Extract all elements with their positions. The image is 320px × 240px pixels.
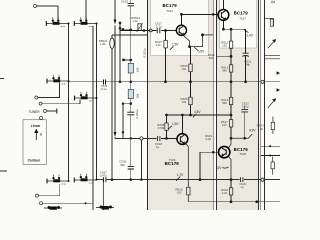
voltage tap 1,5V leader (T628) bbox=[168, 126, 172, 129]
connector pin TUNER bbox=[44, 110, 47, 113]
wire P1 to switch S1 bbox=[37, 6, 59, 21]
Linear/Contour box bbox=[23, 120, 47, 165]
wire P3 bus y103.6 to switch S4 bbox=[42, 100, 80, 104]
svg-text:15k: 15k bbox=[182, 67, 187, 71]
capacitor C622 plates bbox=[241, 109, 248, 112]
wire bus to R624 to bottom bus bbox=[230, 180, 232, 202]
plug bar bbox=[56, 109, 58, 114]
node chain y115 bbox=[230, 114, 232, 116]
svg-text:390: 390 bbox=[222, 101, 227, 105]
svg-text:13k: 13k bbox=[182, 100, 187, 104]
node x120 on bus bbox=[119, 81, 121, 83]
wire TUNER to plug bbox=[47, 110, 57, 112]
node S1-rail bbox=[68, 23, 70, 25]
connector ring on wire y138.4 bbox=[140, 137, 143, 140]
transistor T627 circle bbox=[218, 10, 229, 21]
bottom bus right bbox=[188, 201, 280, 203]
node R607 top bbox=[165, 30, 167, 32]
left edge stub y79 bbox=[0, 78, 4, 80]
svg-text:1μ: 1μ bbox=[156, 145, 160, 149]
capacitor C617 plates bbox=[157, 28, 160, 33]
node base rail bbox=[212, 151, 214, 153]
svg-text:1,2k: 1,2k bbox=[257, 127, 263, 131]
T628 internals bbox=[180, 135, 184, 144]
node S4-rail bbox=[96, 97, 98, 99]
white label box B (around T627) bbox=[219, 0, 256, 48]
stub wire right y146.5 bbox=[261, 145, 280, 147]
svg-text:Ua: Ua bbox=[271, 0, 275, 4]
resistor R614 bbox=[229, 97, 232, 104]
wire y115 horizontal bbox=[167, 114, 232, 116]
signal wire x115 with direction arrows bbox=[114, 0, 116, 138]
T628 emitter wire down bbox=[185, 143, 188, 187]
node m junction dots P8 wire bbox=[85, 202, 87, 204]
resistor R607 bbox=[164, 40, 167, 48]
arrow down top bbox=[114, 20, 117, 25]
stub wire right y155.7 bbox=[261, 155, 280, 157]
chain x190.5: emitter to R605 bbox=[190, 47, 192, 64]
vertical x86 from top bbox=[85, 0, 87, 21]
wire chain R613 bbox=[230, 56, 232, 97]
shaded panel A bbox=[148, 0, 214, 210]
resistor R603 18k (blue) bbox=[128, 63, 133, 73]
svg-text:47k: 47k bbox=[156, 43, 161, 47]
voltage tap 1,5V leader (T621) bbox=[170, 46, 174, 50]
T621 internals bbox=[179, 26, 184, 35]
node x123 top bbox=[122, 103, 124, 105]
svg-text:T628: T628 bbox=[239, 152, 246, 156]
wire y29.3 to C621 bbox=[223, 29, 245, 53]
transistor T621 circle bbox=[176, 25, 186, 35]
resistor R606 bbox=[189, 97, 192, 105]
wire R605 to bus bbox=[190, 72, 192, 98]
node y115 x190.5 bbox=[190, 114, 192, 116]
svg-text:1,5V: 1,5V bbox=[172, 43, 179, 47]
potentiometer arrow lower right bbox=[268, 99, 276, 108]
bottom edge partial switch 2 bbox=[96, 180, 114, 210]
node stub y146.5 bbox=[269, 145, 271, 147]
tap wire y60 bbox=[125, 59, 131, 61]
svg-text:1μ: 1μ bbox=[240, 185, 244, 189]
signal arrowhead y90 bbox=[277, 88, 280, 91]
resistor R604 18k (blue) bbox=[128, 89, 133, 98]
svg-text:0,022μ: 0,022μ bbox=[135, 109, 139, 118]
svg-text:1,5V: 1,5V bbox=[172, 122, 179, 126]
connector pin P3 bbox=[39, 102, 42, 105]
wire chain R611 bbox=[230, 29, 232, 56]
node R607 bus bbox=[165, 81, 167, 83]
node y138.2 bbox=[230, 137, 232, 139]
svg-text:18k: 18k bbox=[136, 93, 140, 98]
wire P2 up to switch S3 bbox=[38, 83, 60, 98]
wire y138.2 right + 4,9V leader bbox=[231, 134, 252, 138]
connector ring bus y81.8 bbox=[261, 80, 264, 83]
node x141.4 on bus bbox=[141, 179, 143, 181]
node chain on bus y179.6 bbox=[130, 179, 132, 181]
node y115 x182.4 bbox=[181, 114, 183, 116]
switch S5 bbox=[47, 175, 69, 184]
svg-text:0,5V: 0,5V bbox=[198, 49, 205, 53]
capacitor C614 0.022u plates bbox=[127, 112, 134, 115]
wire C621 to bus bbox=[245, 56, 247, 82]
wire x202.5 node to rail bbox=[203, 34, 214, 36]
wire y29.3 link bbox=[120, 28, 131, 30]
T627 internals bbox=[221, 10, 225, 19]
wire y103.6 segment bbox=[123, 103, 131, 105]
rail between panels (left) bbox=[212, 0, 214, 210]
node y30.5 x144 bbox=[143, 30, 145, 32]
shaded panel B bbox=[216, 0, 258, 210]
svg-text:4,9V: 4,9V bbox=[249, 128, 256, 132]
bottom wire left bbox=[42, 202, 93, 204]
transistor T626 circle bbox=[219, 146, 230, 157]
resistor right lower leads bbox=[272, 157, 274, 175]
connector pin P7 bbox=[36, 194, 39, 197]
resistor R617 bbox=[229, 120, 232, 127]
svg-text:1,4k: 1,4k bbox=[132, 19, 138, 23]
svg-text:T621: T621 bbox=[166, 9, 173, 13]
wire R607 vertical to bus bbox=[165, 31, 167, 82]
connector ring bus y179.6 bbox=[261, 178, 264, 181]
resistor right lower bbox=[271, 162, 274, 169]
svg-text:0,1μ: 0,1μ bbox=[101, 87, 107, 91]
svg-text:100μ: 100μ bbox=[242, 105, 249, 109]
svg-text:130: 130 bbox=[222, 123, 227, 127]
node S6 wire on bus bbox=[112, 179, 114, 181]
svg-text:0,022μ: 0,022μ bbox=[142, 48, 146, 57]
node emitter junction bbox=[189, 46, 191, 48]
vertical wire x123 lower bbox=[122, 104, 124, 139]
switch S4 bbox=[75, 92, 97, 101]
panel A left border rail bbox=[147, 0, 149, 210]
bottom edge partial switch 1 bbox=[44, 206, 62, 209]
background paper bbox=[0, 0, 280, 210]
wire R606 to y115 bbox=[190, 105, 192, 115]
node C622 y138.2 bbox=[244, 137, 246, 139]
trimmer R5623 bbox=[138, 24, 141, 31]
T626 emitter wire down bbox=[228, 156, 231, 179]
capacitor C622 leads bbox=[244, 106, 246, 139]
node chain on bus y81.8 bbox=[130, 81, 132, 83]
node S6-rail bbox=[96, 179, 98, 181]
node bottom bus x256.7 bbox=[256, 201, 258, 203]
svg-text:380: 380 bbox=[222, 69, 227, 73]
bus y=179.6 horizontal bbox=[97, 179, 281, 181]
wire R617 to node y138.2 bbox=[230, 127, 232, 138]
resistor R605 bbox=[189, 64, 192, 72]
svg-text:130: 130 bbox=[222, 44, 227, 48]
node C621 bus bbox=[245, 81, 247, 83]
main chain vertical x130.8 bbox=[130, 0, 132, 180]
left edge stub y171 bbox=[0, 170, 7, 172]
bus y=81.8 horizontal bbox=[69, 81, 281, 83]
resistor right mid bbox=[271, 122, 274, 129]
node S3-rail bbox=[68, 80, 70, 82]
node S2-rail bbox=[96, 23, 98, 25]
svg-text:1,8k: 1,8k bbox=[100, 42, 106, 46]
vertical wire x111 (lamp branch) bbox=[111, 35, 113, 180]
switch S6 bbox=[74, 174, 96, 183]
voltage tap 1,7V leader (T628) bbox=[176, 177, 180, 181]
svg-text:TUNER: TUNER bbox=[29, 110, 41, 114]
node x112 on bus y179.6 bbox=[111, 179, 113, 181]
rail between panels (right) bbox=[215, 0, 217, 210]
node chain y138.4 bbox=[130, 138, 132, 140]
T626 base wire from x200 bbox=[200, 152, 219, 179]
svg-text:BC179: BC179 bbox=[163, 3, 178, 8]
capacitor C620 plates on bus bbox=[240, 177, 243, 182]
svg-text:T627: T627 bbox=[239, 16, 246, 20]
svg-text:178k: 178k bbox=[158, 126, 165, 130]
12V leader squiggle bbox=[223, 167, 229, 168]
svg-text:BC179: BC179 bbox=[234, 147, 249, 152]
switch S2 bbox=[74, 17, 96, 26]
T621 emitter path bbox=[184, 35, 203, 46]
resistor R611 bbox=[229, 41, 232, 48]
node T621 collector bbox=[180, 13, 182, 15]
node chain y56.3 bbox=[230, 55, 232, 57]
node chain top bbox=[230, 28, 232, 30]
T626 collector from node bbox=[229, 138, 231, 147]
capacitor C621 plates (electrolytic) bbox=[242, 53, 249, 56]
long vertical x96.5 bbox=[96, 24, 98, 180]
svg-text:2,2k: 2,2k bbox=[222, 191, 228, 195]
svg-text:2,2k: 2,2k bbox=[206, 137, 212, 141]
node y115 x166.5 bbox=[166, 114, 168, 116]
T626 internals bbox=[222, 148, 226, 156]
node rail x213.3 y14.4 bbox=[212, 14, 214, 16]
svg-text:0,47μ: 0,47μ bbox=[100, 174, 108, 178]
rail right of panel B (1) bbox=[258, 0, 260, 210]
connector ring y30.5 panel edge bbox=[149, 29, 152, 32]
capacitor C615 top plates bbox=[128, 4, 134, 6]
connector pin P8 bbox=[40, 202, 43, 205]
node R605 chain bus bbox=[190, 81, 192, 83]
wire R608 verticals bbox=[166, 115, 168, 138]
signal arrowhead y73 bbox=[277, 71, 280, 74]
svg-text:56k: 56k bbox=[209, 56, 214, 60]
switch S3 bbox=[47, 75, 69, 84]
resistor R624 bbox=[229, 188, 232, 195]
rail far right bbox=[264, 0, 266, 210]
switch S1 bbox=[46, 17, 68, 26]
balance arrow in box bbox=[35, 130, 38, 140]
node link left bbox=[122, 28, 124, 30]
right edge frame corner bbox=[265, 18, 274, 26]
voltage tap 4,8V leader bbox=[193, 114, 197, 118]
white label box A (around T621) bbox=[151, 0, 209, 56]
long vertical x93 bbox=[92, 26, 94, 210]
svg-text:98n: 98n bbox=[120, 163, 125, 167]
svg-text:Linear: Linear bbox=[31, 124, 41, 128]
wire R610 to bottom bus bbox=[187, 195, 189, 202]
tap square y60 bbox=[122, 59, 124, 61]
node link right bbox=[130, 29, 132, 31]
connector pin P6 unused bbox=[35, 123, 38, 126]
svg-text:BC179: BC179 bbox=[234, 11, 249, 16]
svg-text:18k: 18k bbox=[136, 67, 140, 72]
capacitor C627 plates on bus bbox=[104, 177, 106, 182]
resistor R608 bbox=[165, 123, 168, 130]
voltage tap 0,5V leader bbox=[194, 47, 198, 50]
transistor T628 circle bbox=[177, 134, 188, 145]
node x202.5 y34.9 bbox=[201, 34, 203, 36]
svg-text:1,7V: 1,7V bbox=[177, 173, 184, 177]
node T627 collector bbox=[222, 28, 224, 30]
wire C617 to T621 base bbox=[161, 30, 177, 32]
voltage tap 1,4V leader bbox=[244, 29, 248, 32]
signal wire y138.4 bbox=[115, 137, 140, 139]
wire y56.3 from rail bbox=[216, 55, 231, 57]
lamp/fuse oval La601 bbox=[110, 38, 114, 48]
capacitor C611 plates on bus bbox=[103, 79, 105, 84]
node x200 bus bbox=[199, 179, 201, 181]
svg-text:0,1μ: 0,1μ bbox=[156, 24, 162, 28]
svg-text:C615: C615 bbox=[121, 0, 128, 3]
node stub y155.7 bbox=[269, 155, 271, 157]
svg-text:BC179: BC179 bbox=[165, 161, 180, 166]
svg-text:B: B bbox=[40, 132, 42, 136]
connector pin P1 top-left bbox=[34, 5, 37, 8]
T628 collector wire bbox=[181, 115, 183, 134]
node S5-rail bbox=[68, 180, 70, 182]
vertical x141.4 ring to bus bbox=[140, 140, 142, 180]
svg-text:98μ: 98μ bbox=[245, 63, 250, 67]
wire y35 to panel edge bbox=[112, 34, 148, 36]
svg-text:12V: 12V bbox=[216, 166, 223, 170]
T627 emitter wire up bbox=[222, 0, 224, 10]
svg-text:Contour: Contour bbox=[28, 158, 41, 162]
resistor right top bbox=[270, 19, 273, 26]
wire P7 up to switch S5 bbox=[39, 184, 60, 196]
vertical wire x120 bbox=[119, 22, 121, 82]
node x123 mid bbox=[122, 131, 124, 133]
wire y30.5 into panel bbox=[120, 30, 156, 32]
resistor right mid leads bbox=[272, 117, 274, 135]
connector pin P5 unused bbox=[40, 117, 43, 120]
node chain y103.6 bbox=[130, 103, 132, 105]
T621 collector wire up and right to T627 base bbox=[181, 14, 217, 25]
node T626 emitter bus bbox=[230, 179, 232, 181]
wire ring to cap C618 bbox=[143, 137, 157, 139]
T627 collector wire down bbox=[222, 20, 224, 29]
long vertical x68.5 bbox=[68, 24, 70, 182]
right edge stub lines y55-59 bbox=[265, 55, 280, 59]
wire C618 to T628 base bbox=[161, 137, 177, 139]
rail right of panel B (2) bbox=[260, 0, 262, 210]
potentiometer arrow upper right bbox=[268, 40, 276, 49]
node R608 base wire bbox=[166, 137, 168, 139]
node x120 contact a bbox=[119, 22, 121, 24]
capacitor C618 plates bbox=[157, 136, 160, 141]
svg-text:100: 100 bbox=[177, 191, 182, 195]
resistor R610 bbox=[187, 187, 190, 195]
svg-text:4,8V: 4,8V bbox=[194, 110, 201, 114]
connector pin P2 bbox=[35, 96, 38, 99]
svg-text:1,4V: 1,4V bbox=[246, 34, 253, 38]
node chain bus y81.8 bbox=[230, 81, 232, 83]
node R624 bottom bus bbox=[230, 201, 232, 203]
capacitor C626 plates bbox=[128, 166, 134, 169]
node chain y60 bbox=[130, 59, 132, 61]
wire chain R614 to y115 bbox=[230, 105, 232, 120]
node x120 contact b bbox=[119, 27, 121, 29]
resistor R613 bbox=[229, 65, 232, 72]
arrow down bottom bbox=[114, 132, 117, 137]
